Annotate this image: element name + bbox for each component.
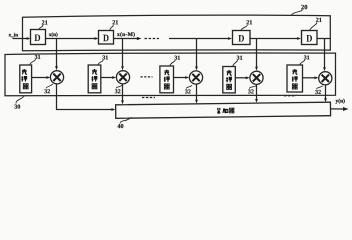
selector U31d — [223, 67, 236, 93]
selector 3 text 选择器 — [164, 70, 170, 89]
label 30 — [14, 96, 24, 109]
label 21 (D4) — [310, 18, 322, 30]
label 21 (D2) — [110, 20, 118, 30]
wire tap down to multiplier 4 — [256, 39, 258, 68]
delay D2 — [99, 31, 114, 45]
multiplier M32c — [189, 71, 202, 84]
label 20 — [291, 5, 307, 16]
label 32 (multiplier 5) — [315, 86, 322, 94]
ellipsis dashes bottom right — [284, 95, 296, 97]
selector 2 text 选择器 — [92, 69, 98, 89]
selector U31e — [287, 65, 303, 92]
selector/multiplier block 30 outline — [5, 53, 336, 96]
multiplier M32a — [50, 71, 63, 84]
label 21 (D3) — [241, 20, 252, 30]
wire multiplier5 output down — [325, 85, 327, 99]
label 40 — [117, 117, 131, 128]
wire selector2 to multiplier2 — [101, 77, 115, 79]
ellipsis dashes on delay line — [145, 38, 160, 40]
label 32 (multiplier 1) — [44, 84, 52, 93]
node x(n) — [49, 32, 58, 37]
delay D4 — [302, 31, 318, 45]
node x(n-M) — [117, 32, 135, 37]
label 32 (multiplier 4) — [248, 86, 256, 94]
wire x_in to D1 — [13, 38, 30, 40]
wire multiplier4 output down — [256, 84, 258, 99]
wire multiplier2 output down — [122, 84, 124, 101]
wire D3 to D4 — [250, 38, 300, 40]
wire tap down to multiplier 3 — [196, 39, 198, 67]
node y(n) — [336, 99, 345, 104]
ellipsis dashes bottom left — [142, 97, 155, 99]
selector 1 text 选择器 — [21, 69, 28, 89]
wire multiplier1 output to accumulator — [57, 84, 114, 110]
label 31 (selector 1) — [30, 55, 41, 65]
wire accumulator output y(n) — [331, 108, 345, 110]
delay D1 — [31, 30, 46, 45]
multiplier M32b — [116, 71, 129, 84]
multiplier M32d — [250, 71, 263, 84]
char 加 — [223, 109, 228, 113]
label 31 (selector 3) — [170, 56, 180, 66]
wire D2 onward — [114, 38, 138, 40]
selector 4 text 选择器 — [226, 70, 232, 89]
wire selector3 to multiplier3 — [174, 77, 188, 79]
accumulator block 40 — [116, 102, 331, 118]
selector U31a — [20, 65, 32, 93]
label 32 (multiplier 3) — [185, 85, 192, 93]
selector 5 text 选择器 — [292, 69, 298, 89]
char 器 — [229, 108, 234, 113]
delay D3 — [233, 31, 251, 45]
selector U31c — [160, 66, 174, 93]
ellipsis dashes middle row — [141, 76, 153, 78]
wire D4 down to multiplier 5 — [317, 39, 330, 68]
wire multiplier3 output down — [196, 84, 198, 100]
wire to D3 — [169, 38, 231, 40]
wire D1 to D2 — [46, 38, 98, 40]
char 累 — [217, 108, 221, 113]
selector U31b — [88, 65, 101, 93]
accumulator text 累加器 — [217, 108, 234, 113]
node x_in — [9, 33, 18, 37]
label 31 (selector 5) — [300, 55, 310, 64]
label 31 (selector 2) — [98, 55, 108, 64]
wire selector4 to multiplier4 — [235, 77, 248, 79]
wire selector5 to multiplier5 — [303, 77, 317, 79]
multiplier M32e — [319, 72, 332, 85]
label 31 (selector 4) — [233, 56, 243, 67]
delay-line block 20 outline — [23, 15, 331, 51]
wire tap down to multiplier 2 — [122, 39, 124, 67]
wire tap down to multiplier 1 — [56, 39, 58, 67]
label 32 (multiplier 2) — [115, 85, 122, 93]
wire selector1 to multiplier1 — [32, 77, 49, 79]
label 21 (D1) — [39, 20, 48, 29]
